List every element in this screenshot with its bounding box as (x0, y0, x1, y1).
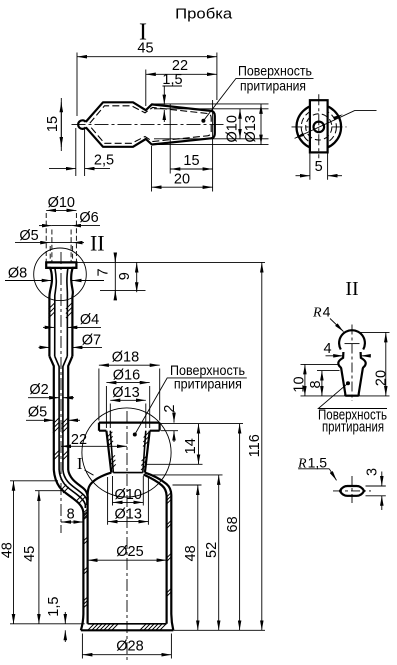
head bore left (55, 268, 57, 356)
dim Ø10 head (46, 213, 76, 262)
svg-text:Ø2: Ø2 (29, 382, 48, 398)
svg-text:Ø13: Ø13 (112, 385, 139, 401)
leader top Поверхность притирания (201, 119, 205, 123)
dim 10 (304, 364, 306, 396)
leader R1,5 (298, 468, 329, 470)
leader end view (295, 111, 377, 139)
svg-text:52: 52 (204, 542, 220, 558)
dim 68 (239, 424, 241, 631)
svg-text:притирания: притирания (322, 419, 384, 435)
svg-text:7: 7 (96, 268, 112, 276)
centerline section I axis (72, 124, 226, 126)
body right wall (145, 473, 173, 631)
head bore right (67, 268, 68, 356)
neck and cone right (359, 352, 366, 396)
svg-text:R4: R4 (312, 304, 331, 321)
svg-text:Ø5: Ø5 (19, 228, 38, 244)
dim 15 left (50, 102, 80, 147)
hatch body wall right (167, 493, 171, 597)
body right wall inner (144, 475, 167, 624)
ext flange top right (160, 423, 243, 425)
dim 5 (310, 152, 328, 179)
detail circle II (34, 248, 87, 301)
hatch body bottom (88, 624, 166, 630)
svg-text:Ø13: Ø13 (243, 115, 259, 142)
dim Ø2 stem (28, 397, 59, 399)
dim 52 (218, 475, 220, 630)
svg-text:45: 45 (22, 546, 38, 562)
dim 116 (261, 263, 263, 631)
hatch body wall left (83, 509, 87, 608)
dim Ø8 waist (5, 280, 52, 282)
ext line head top long (76, 261, 265, 263)
body shoulder left flare (88, 473, 112, 624)
dashed circle Ø13 (301, 109, 336, 144)
stem bend outer (68, 470, 87, 500)
dim Ø13 cone (152, 104, 269, 145)
center hole (314, 122, 325, 133)
svg-text:Ø18: Ø18 (112, 349, 139, 365)
dim 1,5 bottom (64, 612, 66, 624)
centerline detail II (351, 325, 353, 402)
dim 8 (61, 521, 83, 523)
dim 45 left (38, 491, 40, 624)
body bottom inner (88, 623, 167, 625)
body left wall (54, 470, 84, 630)
inner dashed outline (90, 106, 211, 144)
svg-text:45: 45 (137, 41, 153, 57)
ext 10 top (301, 363, 339, 365)
svg-text:Ø28: Ø28 (116, 639, 143, 655)
lens centerline horizontal (333, 490, 371, 492)
dim Ø6 head (52, 230, 71, 262)
dim 22 (145, 70, 147, 107)
centerline ball cross (345, 343, 360, 345)
head cap (46, 262, 76, 268)
hatch stem walls (53, 418, 68, 433)
svg-text:68: 68 (225, 516, 241, 532)
svg-text:1,5: 1,5 (46, 597, 62, 617)
svg-text:Пробка: Пробка (175, 5, 233, 22)
dim 7 (114, 253, 116, 301)
dim 9 (136, 263, 138, 293)
svg-text:15: 15 (45, 116, 61, 132)
svg-text:2,5: 2,5 (94, 153, 114, 169)
svg-text:2: 2 (162, 405, 178, 413)
svg-text:Поверхность: Поверхность (238, 63, 312, 79)
tube step bore (55, 356, 68, 470)
dim 14 (146, 463, 203, 465)
ext 48 left (10, 480, 58, 482)
dim 22 axes (61, 445, 127, 447)
dim Ø4 tube (43, 326, 55, 328)
svg-text:5: 5 (315, 159, 323, 175)
outline handle section (86, 102, 215, 147)
dim 2,5 (76, 128, 85, 176)
dim Ø13 socket bore top (108, 477, 149, 525)
dim Ø28 (82, 634, 171, 659)
ext bottom right (173, 629, 265, 631)
dashed circle Ø10 (306, 114, 332, 140)
leader mid Поверхность притирания (133, 433, 137, 437)
svg-text:48: 48 (0, 542, 15, 558)
svg-text:8: 8 (67, 507, 75, 523)
cone bottom (345, 395, 358, 397)
socket flange (99, 423, 160, 431)
svg-text:Ø7: Ø7 (82, 333, 101, 349)
ext 52 top (152, 474, 223, 476)
ext bottom inner left (10, 623, 85, 625)
lens centerline vertical (351, 476, 353, 506)
dim 20 (151, 146, 153, 192)
dim 2 flange (161, 430, 178, 432)
svg-text:Ø16: Ø16 (113, 367, 140, 383)
centerline end view horizontal (292, 126, 347, 128)
ext line 7/9 bottom (100, 289, 146, 291)
hatch tube walls (49, 303, 73, 318)
dim 15 bottom (170, 100, 212, 192)
tube step outer (49, 356, 72, 470)
svg-text:48: 48 (183, 545, 199, 561)
detail circle I (82, 408, 171, 497)
svg-text:8: 8 (308, 380, 324, 388)
svg-text:3: 3 (365, 468, 381, 476)
leader detail II Поверхность притирания (346, 381, 350, 385)
label I leader (85, 470, 94, 475)
neck and cone left (338, 352, 345, 396)
leader R4 (330, 319, 344, 332)
hatch bend (54, 450, 88, 518)
dim 48 right (197, 485, 199, 630)
lens outline (340, 486, 364, 496)
svg-text:10: 10 (292, 376, 308, 392)
ext bottom detail II (301, 395, 390, 397)
svg-text:Ø4: Ø4 (80, 312, 99, 328)
svg-text:20: 20 (174, 172, 190, 188)
svg-text:Ø6: Ø6 (79, 210, 98, 226)
svg-text:II: II (90, 231, 105, 256)
svg-text:Ø25: Ø25 (116, 544, 143, 560)
dim Ø10 cone (154, 109, 269, 139)
dim 4 neck (326, 355, 344, 357)
svg-text:притирания: притирания (240, 77, 306, 93)
ext 45 left (35, 490, 63, 492)
knob tip (78, 120, 86, 129)
head profile left (46, 268, 52, 356)
svg-text:14: 14 (183, 438, 199, 454)
dim Ø5 head (50, 246, 72, 262)
dim Ø13 socket top (110, 404, 146, 429)
stem bend bore (59, 470, 87, 508)
dim Ø18 flange (99, 369, 160, 421)
socket bore (110, 431, 146, 473)
dim Ø5 stem (26, 419, 54, 421)
svg-text:I: I (77, 454, 83, 473)
dim 8 detail (321, 371, 323, 396)
svg-text:Ø10: Ø10 (114, 487, 141, 503)
svg-text:II: II (345, 278, 358, 300)
svg-text:22: 22 (71, 432, 87, 448)
centerline plug axis (60, 252, 62, 533)
ball R4 (339, 330, 365, 349)
dim Ø16 socket (106, 386, 149, 428)
svg-text:притирания: притирания (174, 375, 242, 391)
dim 48 left (13, 481, 15, 624)
dim 3 (366, 486, 386, 496)
centerline end view vertical (318, 94, 320, 158)
dim 20 (385, 332, 387, 396)
svg-text:15: 15 (183, 153, 199, 169)
dim Ø7 tube (39, 346, 50, 348)
svg-text:Ø10: Ø10 (48, 195, 75, 211)
head profile right (71, 268, 76, 356)
dim 45 (77, 53, 217, 117)
hatch socket walls (107, 432, 150, 470)
lens flats (345, 486, 359, 496)
svg-text:Ø8: Ø8 (8, 266, 27, 282)
svg-text:4: 4 (323, 341, 331, 357)
svg-text:20: 20 (374, 370, 390, 386)
svg-text:9: 9 (117, 272, 133, 280)
svg-text:Ø10: Ø10 (225, 115, 241, 142)
svg-text:116: 116 (247, 434, 263, 457)
grip flat rectangle (310, 100, 328, 152)
ext 20 top (360, 331, 390, 333)
socket outer walls (106, 431, 149, 473)
dim Ø25 (88, 559, 167, 561)
body bottom outer (81, 629, 173, 631)
ext 48 right top (173, 484, 202, 486)
ext 8 top (317, 370, 340, 372)
svg-text:Ø13: Ø13 (114, 506, 141, 522)
dim Ø10 socket bottom (113, 476, 144, 506)
centerline body axis (126, 411, 128, 661)
svg-text:Ø5: Ø5 (28, 405, 47, 421)
outer circle end view (297, 105, 342, 150)
